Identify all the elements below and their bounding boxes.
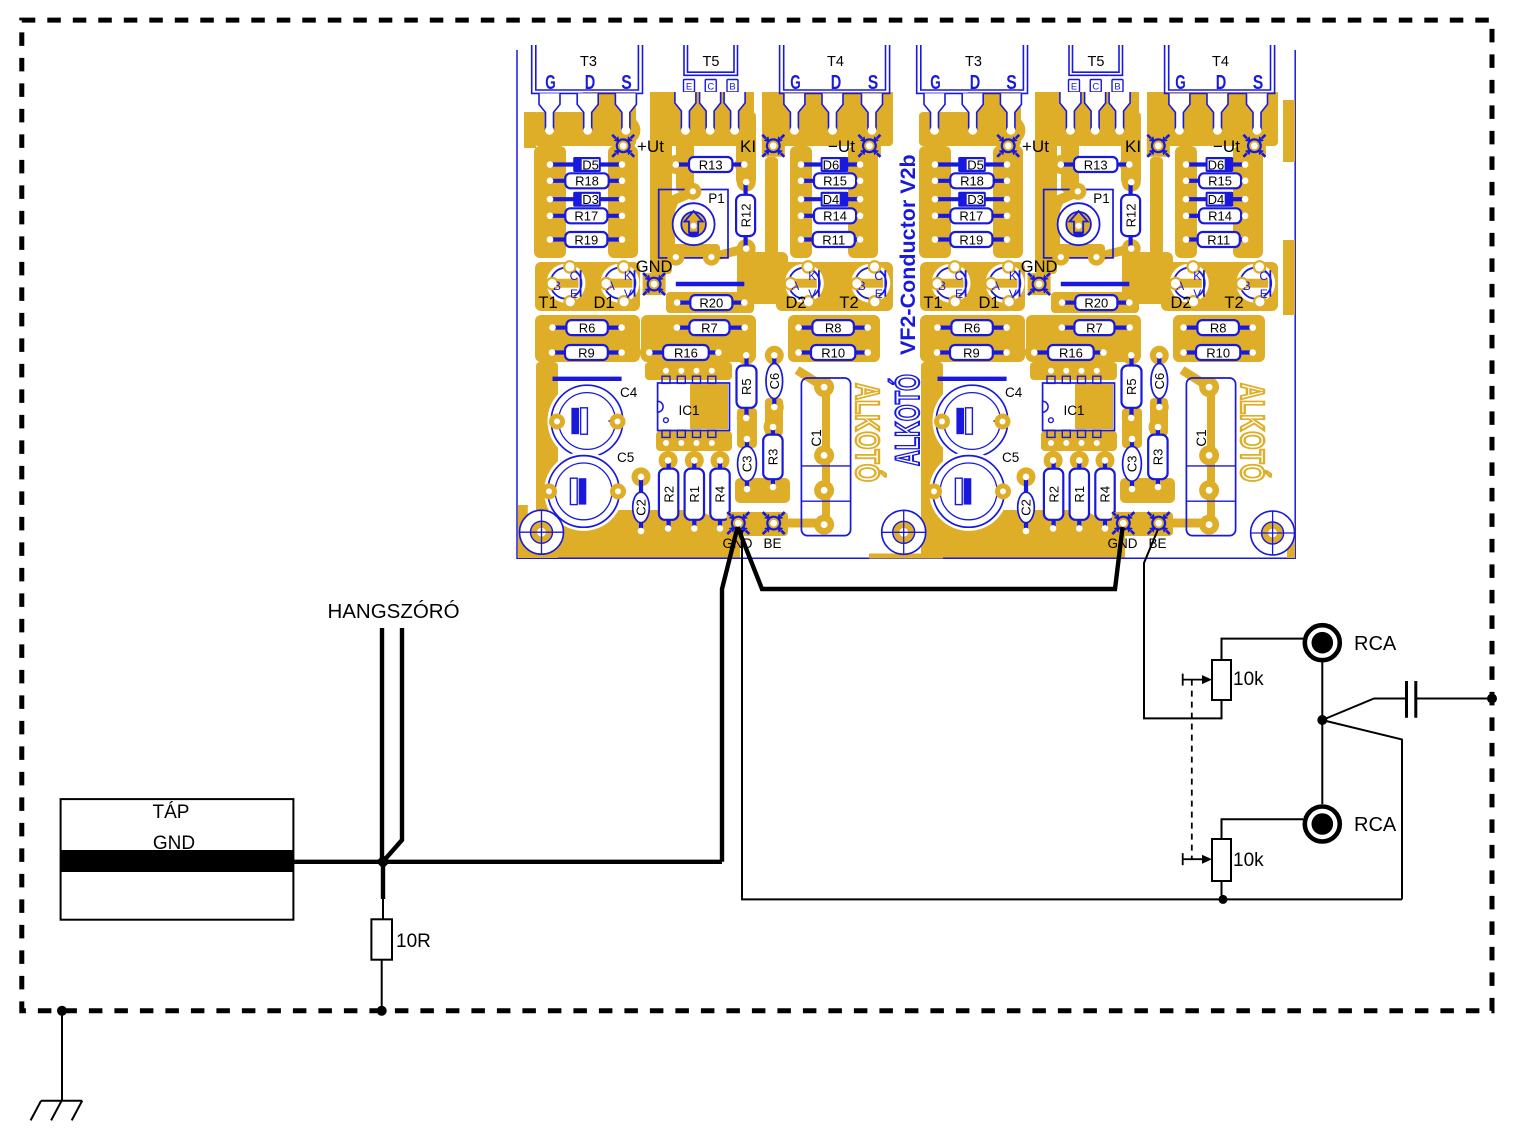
svg-text:TÁP: TÁP — [153, 802, 190, 823]
svg-text:HANGSZÓRÓ: HANGSZÓRÓ — [327, 600, 459, 623]
svg-text:10k: 10k — [1233, 669, 1264, 690]
svg-text:RCA: RCA — [1354, 633, 1397, 655]
svg-text:ALKOTÓ: ALKOTÓ — [889, 374, 927, 466]
svg-text:10k: 10k — [1233, 850, 1264, 871]
svg-text:10R: 10R — [396, 931, 431, 952]
svg-text:VF2-Conductor V2b: VF2-Conductor V2b — [896, 154, 920, 355]
svg-text:GND: GND — [153, 833, 195, 854]
svg-text:RCA: RCA — [1354, 814, 1397, 836]
